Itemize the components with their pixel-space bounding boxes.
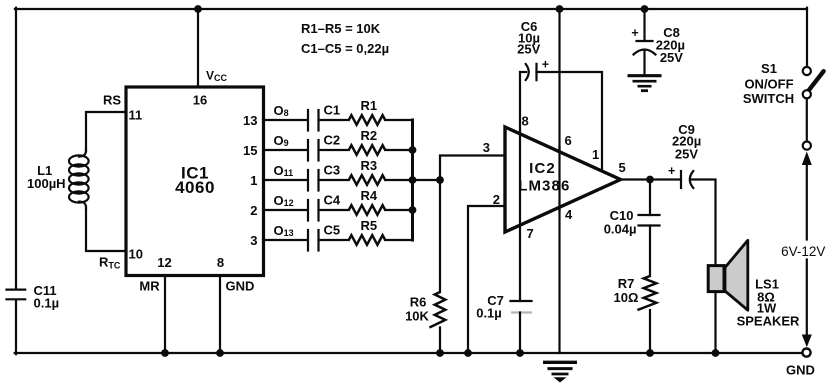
wire rail to switch bbox=[806, 8, 808, 67]
node C8 rail junction bbox=[641, 5, 649, 13]
svg-text:+: + bbox=[631, 26, 638, 40]
svg-text:3: 3 bbox=[483, 140, 490, 155]
wire L1 to pin10 bbox=[86, 207, 126, 251]
capacitor C8 bbox=[637, 40, 653, 42]
wire pin 15 to C2 bbox=[264, 149, 308, 151]
svg-text:0.1µ: 0.1µ bbox=[476, 306, 502, 321]
wire R6 to ground rail bbox=[439, 327, 441, 353]
svg-text:8: 8 bbox=[522, 114, 529, 129]
inductor L1 bbox=[69, 150, 89, 209]
supply arrow down bbox=[802, 335, 812, 348]
speaker LS1 driver box bbox=[708, 266, 724, 292]
resistor R1 bbox=[349, 115, 385, 125]
node output junction (C10/R7 tap) bbox=[646, 176, 654, 184]
svg-text:2: 2 bbox=[493, 192, 500, 207]
node GND terminal bbox=[802, 349, 810, 357]
svg-text:R5: R5 bbox=[361, 218, 378, 233]
svg-text:R4: R4 bbox=[361, 188, 378, 203]
wire bus to R6 node bbox=[413, 179, 441, 181]
wire C5 to R5 bbox=[319, 239, 349, 241]
svg-text:8: 8 bbox=[217, 255, 224, 270]
node bus row4 junction bbox=[409, 206, 417, 214]
svg-text:C5: C5 bbox=[324, 223, 341, 238]
svg-text:10: 10 bbox=[129, 247, 143, 262]
capacitor C6 bbox=[520, 71, 526, 73]
svg-text:GND: GND bbox=[786, 363, 815, 378]
svg-text:R3: R3 bbox=[361, 158, 378, 173]
wire C9 to speaker bbox=[691, 180, 716, 266]
capacitor C5 bbox=[307, 230, 309, 251]
node bus row2 junction bbox=[409, 146, 417, 154]
svg-text:C2: C2 bbox=[324, 133, 341, 148]
svg-text:0.1µ: 0.1µ bbox=[34, 296, 60, 311]
svg-text:25V: 25V bbox=[660, 50, 683, 65]
node Vcc rail junction bbox=[194, 5, 202, 13]
svg-text:10K: 10K bbox=[405, 309, 429, 324]
resistor R3 bbox=[349, 175, 385, 185]
svg-text:4060: 4060 bbox=[175, 178, 215, 197]
node bus row3 junction bbox=[409, 176, 417, 184]
wire C7 to ground rail bbox=[519, 313, 521, 354]
wire C2 to R2 bbox=[319, 149, 349, 151]
svg-text:R7: R7 bbox=[618, 276, 635, 291]
svg-text:ON/OFF: ON/OFF bbox=[744, 77, 793, 92]
svg-text:4: 4 bbox=[565, 207, 573, 222]
svg-text:3: 3 bbox=[250, 233, 257, 248]
wire supply line bbox=[806, 160, 808, 240]
svg-text:25V: 25V bbox=[517, 42, 540, 57]
svg-text:RS: RS bbox=[103, 93, 121, 108]
wire R7 to ground rail bbox=[649, 310, 651, 353]
wire summing bus vertical bbox=[411, 120, 414, 240]
wire pin12 MR to ground rail bbox=[164, 276, 166, 354]
wire pin 1 to C3 bbox=[264, 179, 308, 181]
wire R2 to mix bus bbox=[385, 149, 412, 151]
ground symbol below C8 bbox=[628, 76, 662, 91]
wire left vertical below C11 bbox=[15, 300, 17, 354]
wire C1 to R1 bbox=[319, 119, 349, 121]
wire node up to pin3 feed bbox=[440, 156, 505, 181]
capacitor C2 bbox=[307, 140, 309, 161]
svg-text:MR: MR bbox=[139, 279, 160, 294]
svg-text:R1–R5 = 10K: R1–R5 = 10K bbox=[301, 21, 381, 36]
svg-text:7: 7 bbox=[527, 226, 534, 241]
svg-text:25V: 25V bbox=[675, 147, 698, 162]
capacitor C4 bbox=[307, 200, 309, 221]
svg-text:R6: R6 bbox=[410, 295, 427, 310]
wire pin 2 to C4 bbox=[264, 209, 308, 211]
svg-text:R1: R1 bbox=[361, 98, 378, 113]
wire node down to R6 bbox=[439, 180, 441, 292]
svg-text:C1–C5 = 0,22µ: C1–C5 = 0,22µ bbox=[301, 41, 389, 56]
wire junction to C10 bbox=[649, 180, 651, 216]
svg-text:C3: C3 bbox=[324, 163, 341, 178]
svg-text:5: 5 bbox=[619, 160, 626, 175]
svg-text:C4: C4 bbox=[324, 193, 341, 208]
wire pin2 to ground rail bbox=[468, 206, 505, 353]
svg-text:+: + bbox=[542, 58, 549, 72]
node battery + terminal bbox=[803, 142, 811, 150]
svg-text:GND: GND bbox=[226, 279, 255, 294]
svg-text:11: 11 bbox=[129, 108, 143, 123]
svg-text:LM386: LM386 bbox=[518, 178, 570, 195]
node pin6 rail junction bbox=[556, 5, 564, 13]
svg-text:1: 1 bbox=[250, 173, 257, 188]
svg-text:S1: S1 bbox=[761, 61, 777, 76]
wire C3 to R3 bbox=[319, 179, 349, 181]
wire R5 to mix bus bbox=[385, 239, 412, 241]
wire bottom ground rail bbox=[15, 352, 802, 354]
capacitor C9 bbox=[680, 171, 682, 188]
svg-text:15: 15 bbox=[243, 143, 257, 158]
capacitor C1 bbox=[307, 110, 309, 131]
capacitor C11 bbox=[7, 289, 26, 291]
op-amp IC2 LM386 bbox=[505, 127, 621, 232]
svg-text:16: 16 bbox=[193, 93, 207, 108]
svg-text:10Ω: 10Ω bbox=[614, 290, 639, 305]
capacitor C7 bbox=[511, 300, 532, 302]
svg-text:100µH: 100µH bbox=[27, 176, 66, 191]
wire pin 3 to C5 bbox=[264, 239, 308, 241]
wire pin 13 to C1 bbox=[264, 119, 308, 121]
wire left vertical (to C11) bbox=[15, 8, 17, 289]
wire speaker to ground rail bbox=[714, 290, 716, 353]
svg-text:1: 1 bbox=[592, 147, 599, 162]
resistor R2 bbox=[349, 145, 385, 155]
svg-text:6V-12V: 6V-12V bbox=[781, 244, 825, 259]
node R6 top junction bbox=[436, 176, 444, 184]
op-amp IC1 4060 box bbox=[126, 87, 264, 276]
ground symbol below rail at pin4 bbox=[543, 362, 577, 374]
capacitor C3 bbox=[307, 170, 309, 191]
wire C6 to pin1 drop bbox=[537, 72, 603, 172]
resistor R6 bbox=[429, 292, 445, 328]
svg-text:R2: R2 bbox=[361, 128, 378, 143]
speaker LS1 cone bbox=[725, 240, 748, 310]
svg-text:C1: C1 bbox=[324, 103, 341, 118]
wire R1 to mix bus bbox=[385, 119, 412, 121]
supply arrow up bbox=[802, 152, 812, 166]
wire pin8 GND to ground rail bbox=[219, 276, 221, 354]
svg-text:2: 2 bbox=[250, 203, 257, 218]
resistor R5 bbox=[349, 235, 385, 245]
svg-text:IC2: IC2 bbox=[529, 160, 556, 177]
wire C10 to R7 bbox=[649, 226, 651, 277]
svg-text:+: + bbox=[668, 164, 675, 178]
svg-text:13: 13 bbox=[243, 113, 257, 128]
capacitor C10 bbox=[639, 214, 660, 216]
svg-text:0.04µ: 0.04µ bbox=[604, 222, 637, 237]
wire top supply rail bbox=[15, 8, 807, 10]
wire C4 to R4 bbox=[319, 209, 349, 211]
wire C8 to rail bbox=[643, 9, 645, 41]
resistor R4 bbox=[349, 205, 385, 215]
wire R4 to mix bus bbox=[385, 209, 412, 211]
svg-text:12: 12 bbox=[157, 255, 171, 270]
wire Vs pin6 / pin4 vertical rail-to-ground bbox=[558, 9, 560, 353]
wire switch to battery terminal bbox=[806, 99, 808, 141]
resistor R7 bbox=[637, 276, 656, 310]
svg-text:SPEAKER: SPEAKER bbox=[737, 314, 800, 329]
wire Vcc pin16 to rail bbox=[197, 9, 199, 87]
switch S1 bbox=[803, 67, 811, 75]
wire pin5 output bbox=[621, 178, 682, 180]
svg-text:6: 6 bbox=[565, 133, 572, 148]
svg-text:SWITCH: SWITCH bbox=[743, 91, 794, 106]
wire R3 to mix bus bbox=[385, 179, 412, 181]
wire pin8/pin7 vertical (C6 left leg down to C7) bbox=[519, 72, 521, 301]
wire pin11 to L1 bbox=[86, 112, 126, 151]
